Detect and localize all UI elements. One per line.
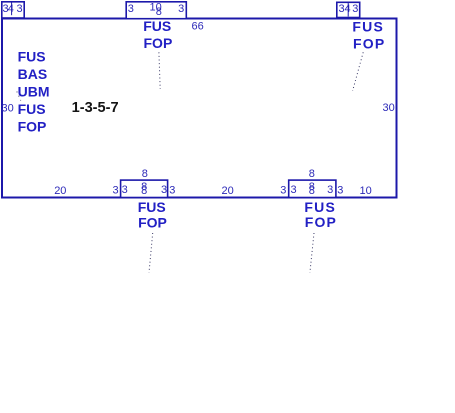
svg-text:BAS: BAS <box>18 66 48 82</box>
svg-text:FUS: FUS <box>138 199 166 215</box>
svg-text:3: 3 <box>327 184 333 196</box>
tab box top-middle <box>126 2 186 19</box>
svg-text:3: 3 <box>113 184 119 196</box>
centerline top-right tab <box>347 3 349 17</box>
main fuse box outline <box>2 19 397 198</box>
svg-text:1-3-5-7: 1-3-5-7 <box>72 100 119 116</box>
leader line (top-right FOP) <box>353 52 364 91</box>
tab box bottom-left <box>121 180 168 197</box>
svg-text:8: 8 <box>156 6 162 18</box>
svg-text:FOP: FOP <box>138 214 167 230</box>
svg-text:FOP: FOP <box>144 35 173 51</box>
svg-text:3: 3 <box>352 3 358 15</box>
svg-text:FUS: FUS <box>352 19 384 35</box>
tab box top-right <box>337 2 360 17</box>
leader line (bottom-right FOP) <box>310 233 314 273</box>
svg-text:3: 3 <box>337 184 343 196</box>
svg-text:30: 30 <box>383 102 395 114</box>
svg-text:8: 8 <box>309 168 315 180</box>
centerline top-left tab <box>11 2 13 15</box>
svg-text:8: 8 <box>141 185 147 197</box>
tab box top-left <box>2 2 24 18</box>
leader line (top-middle FOP) <box>159 52 160 89</box>
svg-text:10: 10 <box>360 185 372 197</box>
svg-text:FOP: FOP <box>353 35 385 51</box>
svg-text:3: 3 <box>280 184 286 196</box>
svg-text:4: 4 <box>8 3 14 15</box>
svg-text:3: 3 <box>122 184 128 196</box>
svg-text:66: 66 <box>192 21 204 33</box>
svg-text:3: 3 <box>17 3 23 15</box>
svg-text:FUS: FUS <box>18 49 46 65</box>
svg-text:FUS: FUS <box>304 199 336 215</box>
leader line (bottom-left FOP) <box>149 233 153 273</box>
tab box bottom-right <box>289 180 336 197</box>
svg-text:20: 20 <box>54 185 66 197</box>
svg-text:3: 3 <box>161 184 167 196</box>
svg-text:UBM: UBM <box>18 84 50 100</box>
svg-text:3: 3 <box>178 3 184 15</box>
svg-text:3: 3 <box>169 184 175 196</box>
svg-text:FUS: FUS <box>143 18 171 34</box>
svg-text:3: 3 <box>128 3 134 15</box>
svg-text:FUS: FUS <box>18 101 46 117</box>
svg-text:20: 20 <box>222 185 234 197</box>
svg-text:FOP: FOP <box>18 119 47 135</box>
svg-text:FOP: FOP <box>305 214 337 230</box>
svg-text:8: 8 <box>142 168 148 180</box>
svg-text:4: 4 <box>345 3 351 15</box>
svg-text:3: 3 <box>291 184 297 196</box>
svg-text:8: 8 <box>309 185 315 197</box>
svg-text:30: 30 <box>2 102 14 114</box>
leader line (left block) <box>17 92 21 101</box>
